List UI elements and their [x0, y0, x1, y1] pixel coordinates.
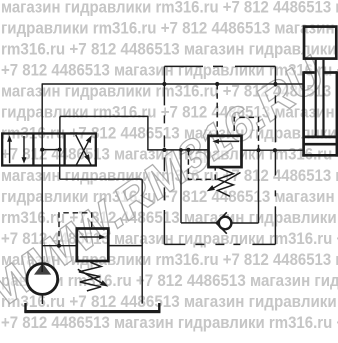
counterbalance internal arrow left — [217, 140, 240, 142]
relief adjustment arrow — [78, 269, 103, 283]
counterbalance spring — [218, 167, 234, 196]
junction dot pilot branch — [57, 244, 61, 248]
valve left cell arrow down — [23, 136, 25, 160]
wire A-line from valve port A to cylinder rod-side port — [42, 83, 304, 85]
pump suction line — [41, 295, 43, 305]
wire check riser up — [258, 150, 260, 223]
piston rod lines — [315, 59, 317, 137]
relief spring — [79, 262, 101, 291]
check valve seat — [216, 212, 227, 223]
wire branch to relief valve — [42, 245, 77, 247]
wire T horizontal — [60, 178, 143, 180]
wire check valve branch down — [180, 150, 182, 223]
valve cell divider 1 — [32, 134, 34, 166]
svg-text:+7 812 4486513 магазин гидравл: +7 812 4486513 магазин гидравлики rm316.… — [1, 313, 338, 332]
load mass block — [304, 27, 336, 59]
wire B-riser valve port B — [59, 116, 61, 133]
wire P-riser pump to valve — [41, 166, 43, 265]
svg-text:rm316.ru +7 812 4486513 магази: rm316.ru +7 812 4486513 магазин гидравли… — [1, 292, 338, 311]
svg-text:rm316.ru +7 812 4486513 магази: rm316.ru +7 812 4486513 магазин гидравли… — [1, 39, 338, 58]
junction dots on A-line — [162, 82, 166, 86]
svg-text:магазин гидравлики rm316.ru +7: магазин гидравлики rm316.ru +7 812 44865… — [1, 0, 338, 16]
valve left cell arrow up — [9, 139, 11, 163]
junction dots on B/outlet line — [162, 148, 166, 152]
valve cell divider 2 — [63, 134, 65, 166]
pump triangle — [34, 263, 51, 274]
svg-text:гидравлики rm316.ru +7 812 448: гидравлики rm316.ru +7 812 4486513 магаз… — [1, 18, 338, 37]
counterbalance adjustment arrow — [212, 173, 241, 189]
relief valve body — [77, 229, 109, 262]
wire check valve branch horizontal — [181, 222, 219, 224]
manifold enclosure dash-dot box — [164, 65, 275, 67]
directional control valve 4/3 body — [2, 134, 96, 166]
wire relief outlet to return line — [108, 245, 142, 247]
relief internal arrow right — [80, 236, 102, 238]
wire B down — [147, 116, 149, 150]
valve right cell crossed arrows — [76, 140, 89, 165]
wire counterbalance outlet to cylinder blind port — [241, 149, 304, 151]
tank symbol — [26, 303, 160, 311]
wire B to counterbalance valve inlet — [147, 149, 208, 151]
piston — [304, 136, 337, 139]
wire check valve to riser — [232, 222, 259, 224]
valve centre H-bar — [42, 149, 60, 151]
wire T-port down — [59, 166, 61, 180]
pilot line lower relief valve — [59, 213, 92, 246]
wire return line to tank — [141, 179, 143, 303]
check valve ball — [219, 217, 232, 230]
valve centre position port lines — [41, 134, 43, 166]
pilot line from A-line to counterbalance valve top — [216, 84, 218, 136]
drain line from B-line to spring chamber — [188, 150, 215, 180]
counterbalance valve body — [209, 136, 242, 167]
pump circle — [27, 264, 58, 295]
wire B horizontal — [60, 115, 148, 117]
wire A-riser valve port A — [41, 83, 43, 133]
cylinder body — [304, 71, 315, 74]
pilot line from outlet over to valve top — [234, 117, 258, 150]
